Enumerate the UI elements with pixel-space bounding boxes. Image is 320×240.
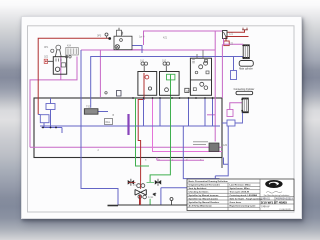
svg-text:Sprint burns: Milan: Sprint burns: Milan <box>230 187 251 190</box>
svg-text:0P1: 0P1 <box>44 46 49 49</box>
svg-text:2: 2 <box>98 149 100 152</box>
svg-text:Sprinkled by Manual Rooders: Sprinkled by Manual Rooders <box>189 202 221 204</box>
svg-text:Last Revision: Milan: Last Revision: Milan <box>230 184 252 187</box>
svg-text:Rapid Intersturting Cycle: Rapid Intersturting Cycle <box>230 205 257 208</box>
svg-text:TS2: TS2 <box>86 106 91 109</box>
svg-text:REL: REL <box>106 121 111 124</box>
svg-text:4Z1: 4Z1 <box>163 37 168 40</box>
svg-text:Sprinkler by: Manuel-bookm: Sprinkler by: Manuel-bookm <box>189 198 218 200</box>
svg-text:0Z1: 0Z1 <box>186 90 191 93</box>
svg-text:a: a <box>145 159 147 162</box>
svg-text:Sprinkler by Manual treasure: Sprinkler by Manual treasure <box>189 194 220 197</box>
svg-text:Basic Pneumatical Drawing Defi: Basic Pneumatical Drawing Definition <box>189 180 229 183</box>
svg-text:1Z1: 1Z1 <box>229 33 234 36</box>
svg-text:424: 424 <box>67 45 72 48</box>
svg-text:An STU by Waterbeam: An STU by Waterbeam <box>189 205 212 208</box>
svg-text:Govn dsws: Govn dsws <box>230 202 242 204</box>
svg-text:1V2: 1V2 <box>162 60 167 63</box>
svg-text:1pr 4: 1pr 4 <box>139 36 145 39</box>
svg-text:Main cylinder: Main cylinder <box>239 67 253 70</box>
svg-text:1V3: 1V3 <box>133 184 138 187</box>
svg-text:Sent by Architect: Sent by Architect <box>189 187 207 190</box>
svg-text:Connecting Cylinder: Connecting Cylinder <box>234 88 255 91</box>
svg-text:(.1.06.2012): (.1.06.2012) <box>279 209 291 211</box>
svg-text:1Z4: 1Z4 <box>223 144 228 147</box>
svg-text:Checking for Dates: Checking for Dates <box>189 191 210 194</box>
svg-text:Centering airvol: LEGWAB: Centering airvol: LEGWAB <box>230 194 258 197</box>
svg-text:2/10 W/1 ST 4B/05: 2/10 W/1 ST 4B/05 <box>261 200 288 204</box>
svg-text:1min: 1min <box>148 196 154 199</box>
svg-text:C496-W: C496-W <box>261 207 270 209</box>
svg-text:Original by Manuel Hernandez: Original by Manuel Hernandez <box>189 185 221 187</box>
svg-text:Safe for Scale - Tough opening: Safe for Scale - Tough opening <box>230 198 263 200</box>
svg-text:B: B <box>113 114 115 117</box>
svg-text:0Z2: 0Z2 <box>44 56 49 59</box>
svg-text:Test cycle: 2019-W: Test cycle: 2019-W <box>230 191 250 194</box>
svg-text:For Manufacturing Industries: For Manufacturing Industries <box>264 194 289 197</box>
svg-text:1Z2: 1Z2 <box>229 43 234 46</box>
svg-text:1V1: 1V1 <box>140 60 145 63</box>
svg-text:0P3: 0P3 <box>97 35 102 38</box>
